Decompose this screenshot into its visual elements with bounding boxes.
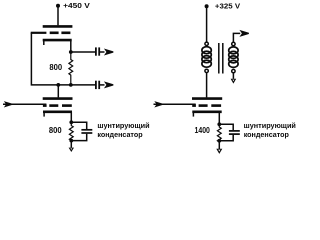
svg-text:1400: 1400 <box>195 126 211 135</box>
svg-text:шунтирующий: шунтирующий <box>244 121 296 130</box>
svg-text:800: 800 <box>49 126 62 135</box>
svg-text:800: 800 <box>49 63 62 72</box>
svg-text:+450 V: +450 V <box>63 1 90 10</box>
svg-text:+325 V: +325 V <box>215 2 240 11</box>
svg-text:шунтирующий: шунтирующий <box>97 121 149 130</box>
svg-text:конденсатор: конденсатор <box>97 130 143 139</box>
svg-text:конденсатор: конденсатор <box>244 130 290 139</box>
